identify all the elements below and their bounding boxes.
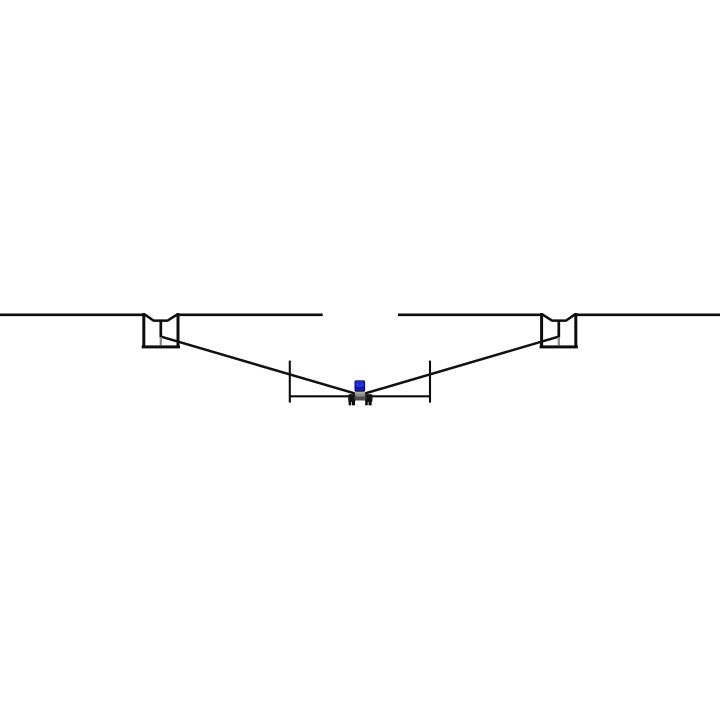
cart left wheel feet [349,401,352,405]
rope: left diagonal from trolley A to cart [161,337,357,395]
cart left wheel inner highlight [354,395,355,399]
trolley A right cheek plate [177,313,180,346]
trolley B hanger line (visible) [557,320,560,338]
wire: cable segment from left trolley toward centre [179,313,323,316]
trolley A (left pulley) [142,313,180,348]
trolley B right cheek plate [574,313,577,346]
wire: cable segment from centre toward right trolley [398,313,541,316]
trolley A hanger line (visible) [159,320,162,338]
trolley B (right pulley) [540,313,578,348]
trolley B bottom plate [540,345,578,348]
cart grey body [355,391,365,401]
trolley A bottom plate [142,345,180,348]
wire: main cable left segment [0,313,143,316]
trolley A hanger line (hidden, grey) [160,337,162,345]
trolley B left cheek plate [540,313,543,346]
dimension post left [289,361,291,403]
trolley B sheave groove [540,315,577,321]
cart blue box highlight [357,385,363,387]
cart blue box [355,381,365,391]
cart grey body mid shade [355,394,365,397]
dimension post right [429,361,431,403]
cart right wheel feet [365,401,368,405]
trolley A sheave groove [143,315,180,321]
cart right wheel [365,394,373,402]
cart (centre carriage) [348,381,372,406]
trolley B hanger line (hidden, grey) [558,337,560,345]
rope: right diagonal from trolley B to cart [363,337,559,395]
cart grey body lower shadow [355,396,365,400]
wire: main cable right segment [577,313,720,316]
dimension line: horizontal span between posts [290,395,430,397]
cart left wheel [348,394,355,402]
cart right wheel inner highlight [365,395,366,399]
trolley A left cheek plate [142,313,145,346]
